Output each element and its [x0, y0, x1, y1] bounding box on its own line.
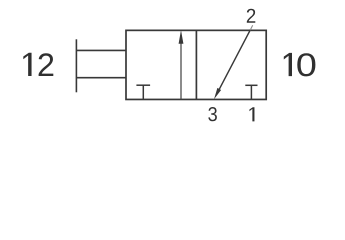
left position flow arrow (1 to 2): [179, 30, 184, 99]
label 1 (supply port): [249, 107, 254, 121]
label 12 (pilot port): [23, 53, 53, 76]
right position flow path (2 to 3): [214, 25, 253, 99]
pilot actuator (port 12): [76, 39, 126, 92]
valve body outline: [126, 30, 266, 99]
label 10 (output port): [284, 53, 316, 77]
label 3 (exhaust port): [208, 107, 217, 121]
right position blocked port T (port 1): [245, 85, 257, 99]
label 2 (working port): [247, 9, 255, 23]
left position blocked port T: [136, 85, 150, 99]
valve position divider: [195, 30, 197, 99]
